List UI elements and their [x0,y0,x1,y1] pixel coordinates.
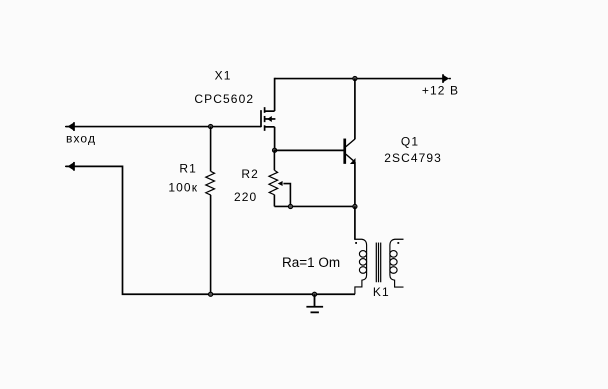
svg-text:R2: R2 [241,167,259,181]
junction: ground / bottom rail [312,292,316,296]
svg-text:CPC5602: CPC5602 [194,92,254,106]
gate bar [260,110,262,127]
junction: wiper / bottom [288,204,292,208]
junction: rail / Q1 collector [353,76,357,80]
drain lead [265,110,275,112]
svg-text:+12 В: +12 В [422,83,459,97]
secondary loop 3 [390,267,397,274]
collector diagonal [346,139,355,147]
svg-text:X1: X1 [215,68,232,82]
junction: emitter / R2 bottom [353,204,357,208]
phase dot primary [355,242,357,244]
wire: node to Q1 base [275,149,344,151]
phase dot secondary [397,242,399,244]
source lead [265,126,275,128]
junction: gate / R1 [208,124,212,128]
wire: emitter junction down to K1 primary [354,206,356,239]
svg-text:100к: 100к [168,181,198,195]
emitter arrow [350,158,356,164]
secondary winding lead-in/out [390,239,404,287]
core line 2 [378,243,380,283]
terminal arrow input upper [65,122,74,131]
wire: lower input to ground rail [66,166,355,294]
wire: X1 drain vertical [274,78,276,111]
wire: input to gate [66,126,261,128]
bulk arrow of X1 [267,116,272,122]
channel segment bottom [264,125,266,131]
primary loop 3 [359,267,366,274]
terminal arrow +12V [443,74,451,83]
junction: source / R2 / base [273,148,277,152]
terminal arrow input lower [65,162,74,171]
channel segment top [264,107,266,113]
transformer K1 [355,239,404,294]
transistor Q1 [343,139,355,164]
core line 3 [380,243,382,283]
secondary loop 1 [390,251,397,258]
MOSFET X1 [261,107,275,131]
ground [306,294,323,312]
primary winding lead-in/out [355,239,367,294]
primary loop 2 [359,259,366,266]
svg-text:K1: K1 [373,285,390,299]
R2 wiper arm [283,184,290,207]
wire: R2 bottom to emitter junction [274,205,355,207]
resistor R2 (rheostat) [269,150,278,206]
svg-text:вход: вход [66,132,96,146]
primary loop 1 [359,251,366,258]
svg-text:R1: R1 [179,161,197,175]
svg-text:Q1: Q1 [401,135,419,149]
wire: Q1 collector vertical [354,79,356,140]
resistor R1 [206,127,215,295]
secondary loop 2 [390,259,397,266]
wire: X1 source to node [274,127,276,151]
bulk lead [265,118,276,120]
core line 1 [375,243,377,283]
base bar [343,139,346,164]
emitter diagonal [346,154,353,160]
channel segment middle [264,116,266,122]
junction: R1 / bottom rail [208,292,212,296]
svg-text:2SC4793: 2SC4793 [384,151,442,165]
svg-text:220: 220 [234,190,257,204]
svg-text:Ra=1 Om: Ra=1 Om [282,255,340,270]
R2 wiper arrow [278,181,283,186]
wire: +12V top rail [275,78,444,80]
wire: Q1 emitter vertical [354,162,356,206]
